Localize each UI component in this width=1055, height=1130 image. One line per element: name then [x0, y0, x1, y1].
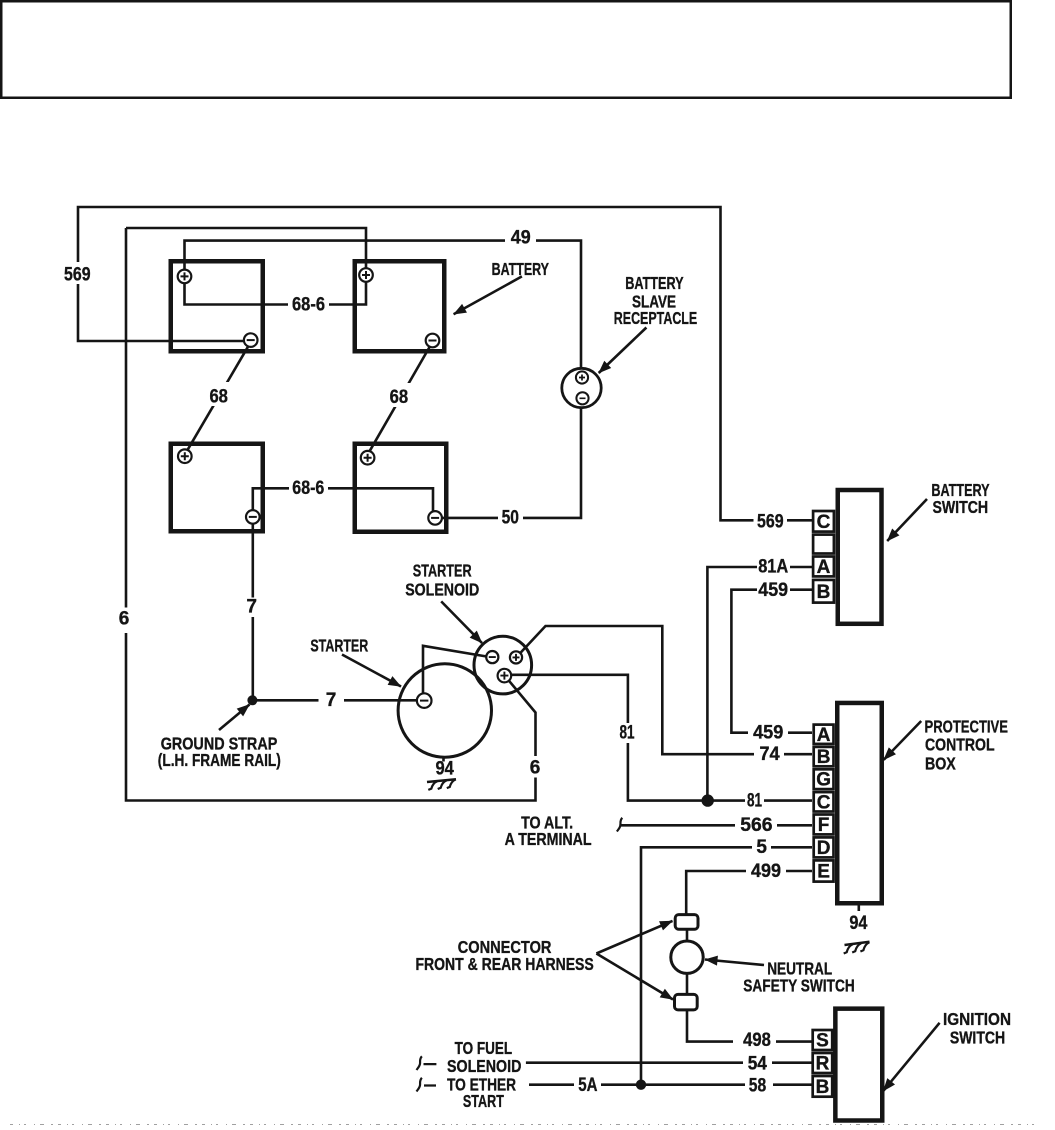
svg-text:74: 74	[759, 744, 780, 765]
svg-text:58: 58	[749, 1076, 766, 1097]
svg-text:68-6: 68-6	[292, 478, 324, 499]
svg-text:B: B	[817, 747, 831, 768]
svg-text:SOLENOID: SOLENOID	[447, 1056, 521, 1076]
svg-text:G: G	[816, 770, 831, 791]
svg-text:BATTERY: BATTERY	[625, 273, 684, 293]
svg-text:6: 6	[530, 758, 541, 779]
svg-text:68-6: 68-6	[292, 294, 325, 315]
svg-text:C: C	[817, 512, 831, 533]
svg-text:459: 459	[758, 580, 788, 601]
svg-text:STARTER: STARTER	[413, 561, 472, 581]
svg-text:SOLENOID: SOLENOID	[405, 580, 479, 600]
svg-text:D: D	[817, 838, 831, 859]
svg-text:81: 81	[620, 723, 635, 744]
svg-text:B: B	[817, 582, 831, 603]
svg-text:566: 566	[740, 815, 772, 836]
svg-text:SWITCH: SWITCH	[950, 1027, 1005, 1047]
svg-text:(L.H. FRAME RAIL): (L.H. FRAME RAIL)	[158, 750, 281, 770]
svg-text:IGNITION: IGNITION	[943, 1009, 1011, 1029]
svg-text:6: 6	[119, 609, 130, 630]
svg-text:68: 68	[209, 387, 228, 408]
svg-text:68: 68	[390, 387, 409, 408]
svg-text:F: F	[818, 815, 830, 836]
svg-text:S: S	[816, 1031, 829, 1052]
svg-text:PROTECTIVE: PROTECTIVE	[925, 717, 1009, 737]
svg-text:499: 499	[751, 861, 781, 882]
svg-text:TO FUEL: TO FUEL	[455, 1038, 513, 1058]
svg-text:569: 569	[64, 265, 91, 286]
svg-text:7: 7	[326, 690, 337, 711]
svg-text:459: 459	[753, 723, 783, 744]
svg-text:81: 81	[747, 790, 762, 811]
svg-text:SWITCH: SWITCH	[932, 497, 988, 517]
svg-text:BATTERY: BATTERY	[492, 259, 550, 279]
svg-text:BOX: BOX	[925, 753, 956, 773]
svg-text:A: A	[817, 725, 831, 746]
svg-text:SAFETY SWITCH: SAFETY SWITCH	[743, 976, 854, 996]
svg-text:CONTROL: CONTROL	[925, 735, 995, 755]
svg-text:94: 94	[849, 913, 867, 934]
svg-text:E: E	[817, 862, 830, 883]
svg-text:49: 49	[511, 228, 531, 249]
svg-text:B: B	[816, 1077, 830, 1098]
svg-text:R: R	[816, 1054, 830, 1075]
svg-text:94: 94	[435, 759, 454, 780]
svg-text:81A: 81A	[758, 556, 788, 577]
svg-text:START: START	[463, 1091, 504, 1111]
svg-text:5: 5	[756, 837, 767, 858]
svg-text:498: 498	[743, 1030, 771, 1051]
svg-text:STARTER: STARTER	[310, 636, 368, 656]
svg-text:RECEPTACLE: RECEPTACLE	[614, 308, 697, 328]
svg-text:5A: 5A	[578, 1075, 597, 1096]
svg-text:C: C	[817, 792, 831, 813]
svg-text:A TERMINAL: A TERMINAL	[505, 829, 592, 849]
svg-text:A: A	[817, 557, 831, 578]
svg-text:50: 50	[502, 508, 519, 529]
svg-text:7: 7	[246, 597, 257, 618]
svg-text:FRONT & REAR HARNESS: FRONT & REAR HARNESS	[415, 954, 593, 974]
svg-text:569: 569	[757, 511, 784, 532]
svg-text:54: 54	[748, 1054, 768, 1075]
